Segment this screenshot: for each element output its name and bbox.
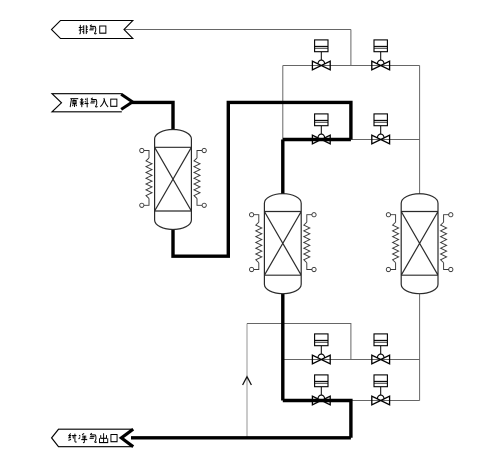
- thick wire: feed line into vessel T1: [131, 102, 174, 132]
- packed-bed (X) section of vessel T1: [155, 147, 192, 211]
- body (bowtie) of valve V5: [312, 355, 330, 364]
- flow arrowhead (up) on purge line: [243, 377, 252, 385]
- vessel T1 (adsorber column shell): [155, 130, 192, 230]
- heater coil of vessel T2, right side: [304, 213, 316, 272]
- actuator box of valve V2: [374, 40, 387, 52]
- packed-bed (X) section of vessel T3: [401, 212, 438, 276]
- body (bowtie) of valve V2: [372, 61, 390, 70]
- bonnet arc of valve V4: [377, 134, 384, 138]
- body (bowtie) of valve V7: [312, 396, 330, 405]
- actuator box of valve V6: [374, 334, 387, 346]
- wire: vessel T3 bottom riser: [419, 292, 421, 401]
- bonnet arc of valve V5: [318, 354, 325, 358]
- stem of valve V6: [380, 346, 382, 355]
- thick wire: into vessel T2 top: [281, 140, 284, 197]
- bonnet arc of valve V7: [318, 395, 325, 399]
- vessel T2 (adsorber column shell): [264, 194, 301, 294]
- stem of valve V8: [380, 387, 382, 396]
- stem of valve V4: [380, 126, 382, 135]
- body (bowtie) of valve V6: [372, 355, 390, 364]
- thick chevron arrowhead of purified gas outlet flag: [121, 429, 133, 447]
- vessel T3 (adsorber column shell): [401, 194, 438, 294]
- actuator box of valve V8: [374, 375, 387, 387]
- wire: vessel T3 top riser: [419, 66, 421, 197]
- stem of valve V3: [320, 126, 322, 135]
- wire: exhaust drop to valve row 1: [350, 30, 352, 66]
- flag label: purified gas outlet: [52, 429, 134, 447]
- wire: vessel T2 top riser (row1-row2): [282, 66, 284, 140]
- wire: valve row 1 header: [283, 65, 420, 67]
- wire: exhaust header from flag to drop: [125, 29, 351, 31]
- heater coil of vessel T3, right side: [441, 213, 453, 272]
- flag label: raw gas inlet: [52, 94, 133, 112]
- thick wire: valve row 2 left branch (active): [283, 138, 351, 141]
- heater coil of vessel T2, left side: [250, 213, 262, 272]
- actuator box of valve V3: [315, 114, 328, 126]
- thick wire: vessel T1 outlet up and over to valve row 2: [173, 102, 351, 256]
- wire: purge top run over to row 3 drop: [247, 324, 351, 360]
- stem of valve V7: [320, 387, 322, 396]
- body (bowtie) of valve V4: [372, 135, 390, 144]
- heater coil of vessel T3, left side: [386, 213, 398, 272]
- packed-bed (X) section of vessel T2: [264, 212, 301, 276]
- heater coil of vessel T1, right side: [194, 148, 206, 207]
- heater coil of vessel T1, left side: [140, 148, 152, 207]
- actuator box of valve V5: [315, 334, 328, 346]
- bonnet arc of valve V2: [377, 60, 384, 64]
- body (bowtie) of valve V8: [372, 396, 390, 405]
- thick wire: valve row 4 active branch to product drop: [283, 401, 351, 438]
- body (bowtie) of valve V3: [312, 135, 330, 144]
- wire: valve row 4 right branch: [351, 400, 420, 402]
- thick chevron arrowhead of raw gas inlet flag: [121, 94, 132, 109]
- actuator box of valve V1: [315, 40, 328, 52]
- bonnet arc of valve V6: [377, 354, 384, 358]
- actuator box of valve V7: [315, 375, 328, 387]
- wire: valve row 2 right branch: [351, 139, 420, 141]
- wire: purge riser from product header (light): [246, 324, 248, 438]
- actuator box of valve V4: [374, 114, 387, 126]
- stem of valve V5: [320, 346, 322, 355]
- stem of valve V2: [380, 52, 382, 61]
- body (bowtie) of valve V1: [312, 61, 330, 70]
- stem of valve V1: [320, 52, 322, 61]
- thick wire: vessel T2 bottom riser: [281, 292, 284, 401]
- thick wire: product header to outlet flag: [127, 436, 351, 439]
- wire: valve row 3 header: [283, 359, 420, 361]
- bonnet arc of valve V8: [377, 395, 384, 399]
- flag label: exhaust port: [52, 21, 133, 39]
- bonnet arc of valve V3: [318, 134, 325, 138]
- bonnet arc of valve V1: [318, 60, 325, 64]
